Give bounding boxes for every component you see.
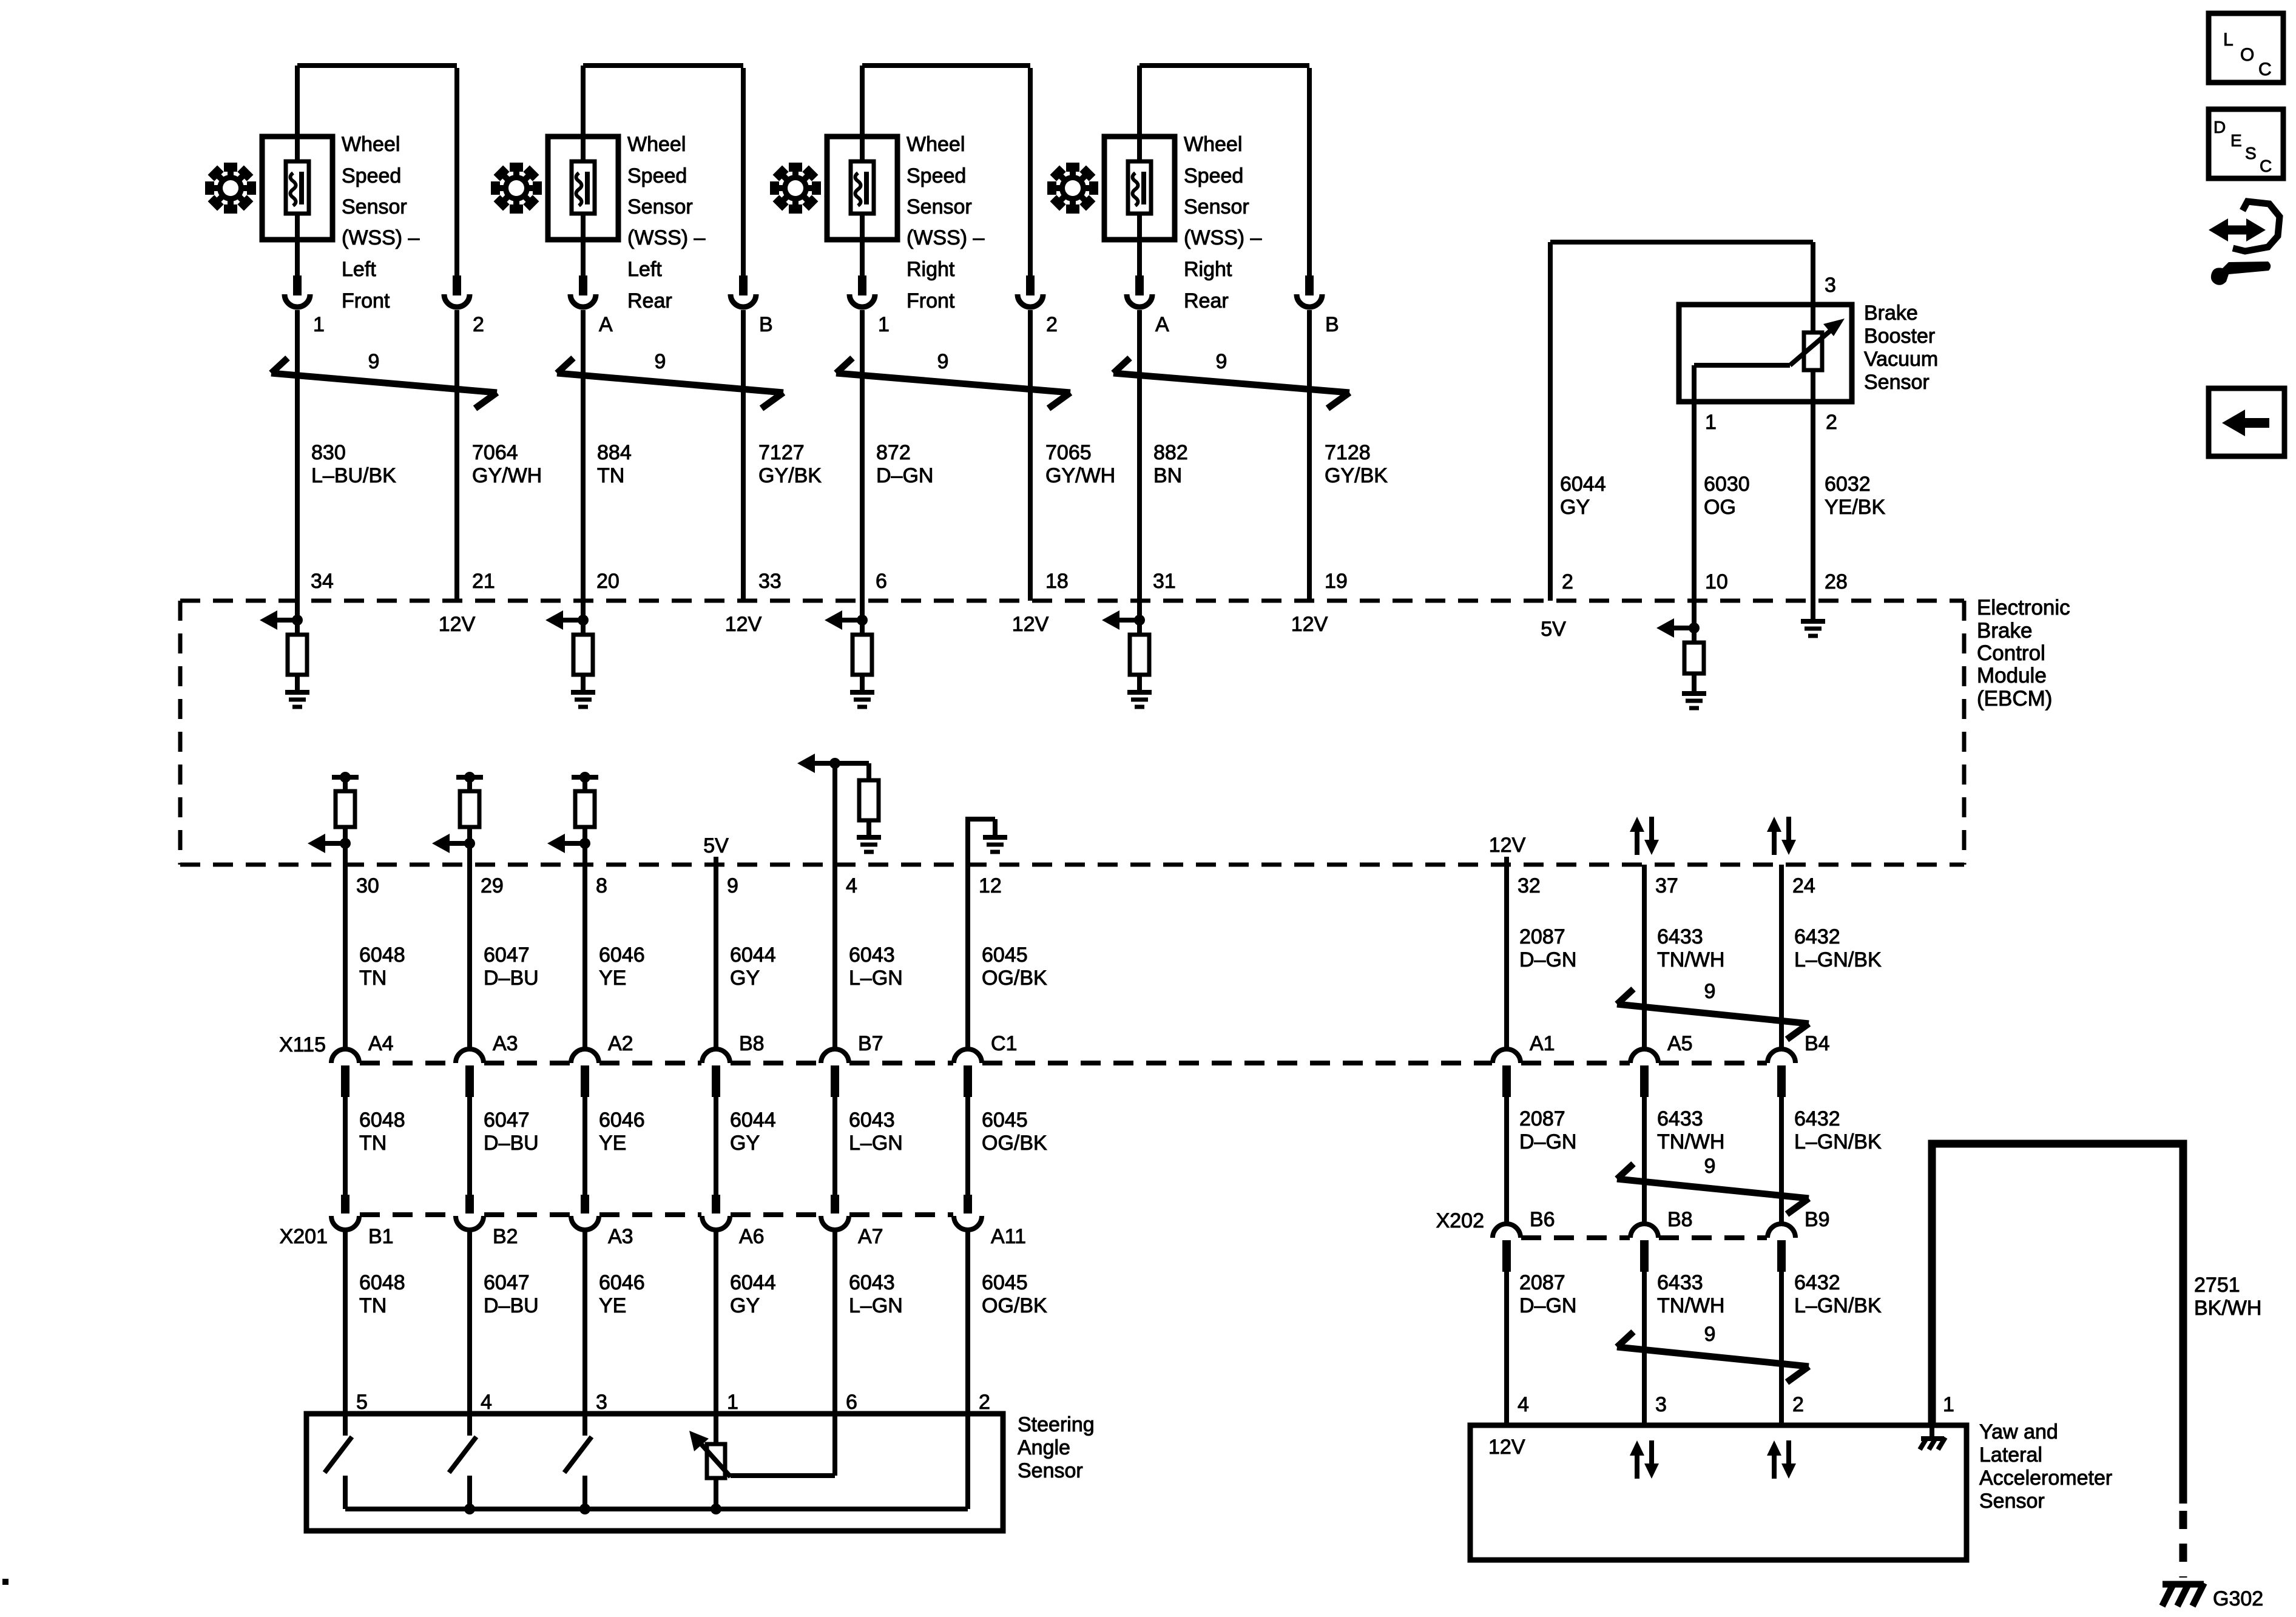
wire 830 L–BU/BK (297, 310, 396, 620)
shield 9 over wires 6433 and 6432 (upper) (1617, 980, 1809, 1039)
svg-text:12V: 12V (1291, 613, 1328, 636)
svg-text:6432: 6432 (1794, 1107, 1840, 1130)
svg-text:9: 9 (368, 350, 380, 373)
svg-text:GY/WH: GY/WH (472, 464, 542, 487)
svg-text:Booster: Booster (1864, 325, 1935, 348)
svg-text:X202: X202 (1436, 1209, 1484, 1232)
connector X202 terminal B8 (1630, 1208, 1693, 1272)
svg-text:D–BU: D–BU (484, 1294, 539, 1317)
EBCM internal arrow node at pin 29 (432, 834, 475, 853)
connector X201 terminal B1 (331, 1195, 394, 1248)
svg-text:6046: 6046 (599, 1109, 645, 1132)
svg-text:37: 37 (1655, 874, 1678, 897)
svg-text:A1: A1 (1530, 1032, 1555, 1055)
svg-text:YE: YE (599, 1294, 626, 1317)
wire 7127 GY/BK (743, 310, 822, 601)
svg-text:7065: 7065 (1045, 441, 1092, 464)
label Wheel Speed Sensor (WSS) - Right Front (907, 133, 985, 312)
svg-text:Electronic: Electronic (1977, 596, 2070, 619)
wire 6045 OG/BK segment 2 (968, 1097, 1047, 1195)
svg-text:B: B (1325, 313, 1339, 336)
svg-text:Wheel: Wheel (342, 133, 400, 156)
EBCM pin 19 (1325, 570, 1348, 593)
wire 872 D–GN (862, 310, 933, 620)
svg-text:D–GN: D–GN (876, 464, 933, 487)
svg-text:Left: Left (342, 258, 376, 281)
svg-text:O: O (2240, 45, 2254, 65)
svg-text:L–GN/BK: L–GN/BK (1794, 1130, 1882, 1153)
back arrow box (2209, 388, 2284, 456)
svg-text:9: 9 (1704, 1155, 1716, 1178)
svg-text:Sensor: Sensor (627, 195, 693, 218)
svg-text:3: 3 (596, 1391, 607, 1414)
svg-text:6046: 6046 (599, 1271, 645, 1294)
connector X115 terminal A2 (571, 1032, 633, 1097)
wire 6433 TN/WH segment 3 (1644, 1271, 1724, 1425)
svg-text:(WSS) –: (WSS) – (342, 226, 420, 249)
svg-text:C: C (2258, 59, 2272, 79)
svg-text:7064: 7064 (472, 441, 518, 464)
wire 6045 OG/BK segment 3 (968, 1227, 1047, 1414)
wire 6046 YE segment 2 (585, 1097, 645, 1195)
EBCM internal pull-up resistor at pin 29 (456, 772, 483, 865)
connector X202 terminal B6 (1493, 1208, 1555, 1272)
svg-text:TN/WH: TN/WH (1657, 948, 1724, 971)
svg-text:G302: G302 (2213, 1587, 2263, 1610)
svg-text:Speed: Speed (907, 164, 966, 187)
EBCM internal arrow node at pin 4 (797, 754, 840, 865)
wire 6045 OG/BK segment 1 (968, 865, 1047, 1048)
EBCM internal arrow node at pin 20 (545, 610, 589, 630)
svg-text:6032: 6032 (1825, 473, 1871, 496)
svg-text:12V: 12V (1012, 613, 1049, 636)
svg-text:TN: TN (359, 1132, 387, 1155)
terminal B of WSS 4 (1297, 275, 1339, 336)
switch inside steering angle sensor at pin 3 (564, 1414, 592, 1509)
svg-text:B: B (759, 313, 773, 336)
svg-text:GY: GY (730, 1132, 760, 1155)
hand/wrench tool icon (2209, 201, 2280, 285)
svg-text:4: 4 (846, 874, 857, 897)
wire 6043 L–GN segment 3 (835, 1227, 903, 1414)
EBCM internal bidirectional arrows at pin 37 (1630, 817, 1659, 855)
EBCM internal ground at pin 20 (571, 692, 595, 707)
svg-text:L: L (2223, 30, 2234, 50)
svg-text:D–GN: D–GN (1519, 1294, 1576, 1317)
svg-text:TN/WH: TN/WH (1657, 1294, 1724, 1317)
svg-text:10: 10 (1705, 570, 1728, 593)
svg-text:A7: A7 (858, 1225, 883, 1248)
svg-text:Sensor: Sensor (1018, 1459, 1083, 1482)
EBCM pin 6 (876, 570, 887, 593)
label Electronic Brake Control Module (EBCM) (1977, 596, 2070, 711)
svg-text:2751: 2751 (2194, 1274, 2240, 1297)
EBCM internal resistor at pin 34 (288, 620, 307, 690)
svg-text:7127: 7127 (758, 441, 805, 464)
svg-text:1: 1 (313, 313, 325, 336)
svg-text:YE: YE (599, 1132, 626, 1155)
12V label at EBCM pin 32 (1489, 834, 1526, 865)
svg-text:6433: 6433 (1657, 1107, 1703, 1130)
svg-text:B9: B9 (1805, 1208, 1830, 1231)
gear icon for WSS Right Rear (1047, 163, 1098, 214)
svg-text:B4: B4 (1805, 1032, 1830, 1055)
wire 6048 TN segment 1 (345, 865, 405, 1048)
EBCM internal resistor at pin 10 (1684, 628, 1704, 692)
svg-text:B6: B6 (1530, 1208, 1555, 1231)
svg-text:YE/BK: YE/BK (1825, 496, 1885, 519)
EBCM pin 31 (1153, 570, 1176, 593)
connector X201 dashed line (360, 1212, 953, 1217)
svg-text:Module: Module (1977, 664, 2047, 687)
wheel speed sensor (WSS) Right Front box (827, 137, 897, 240)
svg-text:GY: GY (730, 1294, 760, 1317)
svg-text:31: 31 (1153, 570, 1176, 593)
terminal 2 of WSS 3 (1018, 275, 1058, 336)
svg-text:OG/BK: OG/BK (982, 967, 1047, 990)
svg-text:5V: 5V (703, 834, 729, 857)
svg-text:Angle: Angle (1018, 1436, 1070, 1459)
svg-text:6044: 6044 (730, 944, 776, 967)
connector X115 terminal A4 (331, 1032, 394, 1097)
svg-text:L–GN: L–GN (849, 967, 903, 990)
svg-text:6432: 6432 (1794, 925, 1840, 948)
EBCM pin 29 (481, 874, 504, 897)
svg-text:TN: TN (359, 967, 387, 990)
connector X201 label (280, 1225, 328, 1248)
svg-text:Wheel: Wheel (1184, 133, 1242, 156)
terminal 1 of WSS 1 (285, 275, 325, 336)
svg-text:1: 1 (1943, 1393, 1954, 1416)
label Wheel Speed Sensor (WSS) - Right Rear (1184, 133, 1262, 312)
svg-text:12V: 12V (1488, 1436, 1525, 1459)
connector X115 label (279, 1033, 326, 1056)
steering angle sensor pin 6 (846, 1391, 857, 1414)
svg-text:GY/BK: GY/BK (758, 464, 822, 487)
wire 7064 GY/WH (457, 310, 542, 601)
svg-text:32: 32 (1518, 874, 1541, 897)
svg-text:TN: TN (597, 464, 624, 487)
EBCM pin 12 (979, 874, 1002, 897)
svg-text:Brake: Brake (1977, 619, 2032, 643)
svg-text:6047: 6047 (484, 944, 530, 967)
EBCM internal resistor to ground at pin 4 (835, 763, 881, 852)
svg-text:BK/WH: BK/WH (2194, 1297, 2261, 1320)
svg-text:6: 6 (876, 570, 887, 593)
EBCM internal ground at pin 34 (285, 692, 309, 707)
EBCM internal pull-up resistor at pin 8 (572, 772, 598, 865)
connector X115 terminal C1 (954, 1032, 1017, 1097)
svg-text:Sensor: Sensor (342, 195, 407, 218)
switch inside steering angle sensor at pin 4 (449, 1414, 476, 1509)
wire 2087 D–GN segment 3 (1507, 1271, 1576, 1425)
EBCM pin 4 (846, 874, 857, 897)
svg-text:L–BU/BK: L–BU/BK (311, 464, 396, 487)
connector X115 terminal B4 (1768, 1032, 1830, 1097)
svg-text:9: 9 (655, 350, 666, 373)
gear icon for WSS Right Front (770, 163, 821, 214)
connector X115 terminal B7 (821, 1032, 883, 1097)
12V label at pin 18 (1012, 613, 1049, 636)
svg-text:6044: 6044 (730, 1271, 776, 1294)
svg-text:TN: TN (359, 1294, 387, 1317)
wire 6044 GY upper run (1550, 242, 1813, 601)
connector X201 terminal A3 (571, 1195, 633, 1248)
terminal A of WSS 2 (570, 275, 613, 336)
yaw and lateral accelerometer sensor box (1470, 1425, 1967, 1560)
svg-text:882: 882 (1153, 441, 1188, 464)
svg-text:Sensor: Sensor (1864, 371, 1930, 394)
svg-text:2: 2 (1792, 1393, 1804, 1416)
EBCM pin 21 (472, 570, 495, 593)
svg-text:9: 9 (1704, 1323, 1716, 1346)
label Wheel Speed Sensor (WSS) - Left Front (342, 133, 420, 312)
svg-text:Sensor: Sensor (1184, 195, 1249, 218)
svg-text:5V: 5V (1541, 618, 1566, 641)
wire 6433 TN/WH segment 1 (1644, 865, 1724, 1048)
svg-text:6045: 6045 (982, 1271, 1028, 1294)
Electronic Brake Control Module (EBCM) dashed outline (180, 601, 1964, 865)
svg-text:6045: 6045 (982, 1109, 1028, 1132)
connector X201 terminal B2 (456, 1195, 518, 1248)
wire 2087 D–GN segment 2 (1507, 1097, 1576, 1223)
svg-text:OG/BK: OG/BK (982, 1132, 1047, 1155)
wire 6433 TN/WH segment 2 (1644, 1097, 1724, 1223)
connector X115 terminal B8 (702, 1032, 765, 1097)
EBCM internal ground at pin 6 (850, 692, 874, 707)
svg-text:18: 18 (1045, 570, 1069, 593)
wire 6048 TN segment 2 (345, 1097, 405, 1195)
svg-text:Speed: Speed (627, 164, 687, 187)
svg-text:2087: 2087 (1519, 1107, 1565, 1130)
svg-text:X115: X115 (279, 1033, 326, 1056)
svg-text:Brake: Brake (1864, 302, 1918, 325)
svg-text:6030: 6030 (1704, 473, 1750, 496)
svg-text:9: 9 (727, 874, 738, 897)
LOC reference box (2209, 13, 2283, 83)
EBCM pin 2 (1562, 570, 1573, 593)
svg-text:5: 5 (356, 1391, 368, 1414)
EBCM pin 28 (1825, 570, 1848, 593)
gear icon for WSS Left Front (205, 163, 256, 214)
EBCM internal ground at pin 31 (1127, 692, 1152, 707)
svg-text:Wheel: Wheel (907, 133, 965, 156)
connector X115 terminal A3 (456, 1032, 518, 1097)
svg-text:E: E (2230, 131, 2242, 150)
wire 6432 L–GN/BK segment 2 (1781, 1097, 1882, 1223)
steering angle sensor pin 3 (596, 1391, 607, 1414)
wire 2087 D–GN segment 1 (1507, 865, 1576, 1048)
label Brake Booster Vacuum Sensor (1864, 302, 1938, 394)
svg-text:2: 2 (979, 1391, 990, 1414)
wire 2751 BK/WH (1932, 1144, 2261, 1578)
EBCM pin 33 (758, 570, 782, 593)
brake booster sensor pin 3 (1813, 242, 1836, 333)
svg-text:1: 1 (727, 1391, 738, 1414)
svg-text:OG/BK: OG/BK (982, 1294, 1047, 1317)
svg-text:A6: A6 (739, 1225, 765, 1248)
wire 6044 GY segment 1 (716, 865, 776, 1048)
svg-text:2: 2 (473, 313, 484, 336)
svg-text:A: A (599, 313, 613, 336)
svg-text:A3: A3 (493, 1032, 518, 1055)
EBCM pin 32 (1518, 874, 1541, 897)
yaw sensor pin 1 (1943, 1393, 1954, 1416)
EBCM pin 20 (596, 570, 620, 593)
svg-text:(WSS) –: (WSS) – (627, 226, 706, 249)
svg-text:C: C (2260, 157, 2272, 175)
svg-text:Sensor: Sensor (907, 195, 972, 218)
wire 6044 GY segment 2 (716, 1097, 776, 1195)
svg-text:Lateral: Lateral (1979, 1443, 2042, 1467)
svg-text:1: 1 (1705, 411, 1717, 434)
svg-text:2: 2 (1826, 411, 1837, 434)
label Steering Angle Sensor (1018, 1413, 1095, 1482)
5V label at EBCM pin 9 (703, 834, 729, 865)
EBCM pin 37 (1655, 874, 1678, 897)
svg-text:6044: 6044 (730, 1109, 776, 1132)
svg-text:S: S (2245, 144, 2257, 163)
svg-text:Rear: Rear (627, 289, 672, 312)
wire loop WSS 3 top (862, 66, 1030, 275)
svg-text:30: 30 (356, 874, 379, 897)
potentiometer inside steering angle sensor (689, 1414, 731, 1509)
connector X115 terminal A5 (1630, 1032, 1693, 1097)
wire 6048 TN segment 3 (345, 1227, 405, 1414)
steering angle sensor pin 2 (979, 1391, 990, 1414)
svg-text:6047: 6047 (484, 1109, 530, 1132)
wire loop WSS 4 top (1140, 66, 1309, 275)
svg-text:Right: Right (1184, 258, 1232, 281)
EBCM pin 10 (1705, 570, 1728, 593)
EBCM pin 9 (727, 874, 738, 897)
shield 9 over wires 6433 and 6432 (lower) (1617, 1323, 1809, 1382)
svg-text:B8: B8 (739, 1032, 765, 1055)
steering angle sensor pin 1 (727, 1391, 738, 1414)
wire 6432 L–GN/BK segment 1 (1781, 865, 1882, 1048)
wire 6432 L–GN/BK segment 3 (1781, 1271, 1882, 1425)
svg-text:Right: Right (907, 258, 955, 281)
svg-text:7128: 7128 (1325, 441, 1371, 464)
svg-text:Left: Left (627, 258, 662, 281)
svg-text:6045: 6045 (982, 944, 1028, 967)
svg-text:L–GN/BK: L–GN/BK (1794, 948, 1882, 971)
svg-text:BN: BN (1153, 464, 1182, 487)
svg-text:A2: A2 (608, 1032, 633, 1055)
EBCM internal arrow node at pin 34 (260, 610, 303, 630)
svg-text:GY: GY (1560, 496, 1590, 519)
shield 9 over WSS 2 wires (557, 350, 783, 408)
wire 6044 GY segment 3 (716, 1227, 776, 1414)
wire 6047 D–BU segment 2 (470, 1097, 539, 1195)
svg-text:YE: YE (599, 967, 626, 990)
connector X202 label (1436, 1209, 1484, 1232)
EBCM internal arrow node at pin 31 (1102, 610, 1145, 630)
wire loop WSS 1 top (297, 66, 457, 275)
EBCM internal resistor at pin 6 (853, 620, 872, 690)
svg-text:D: D (2213, 118, 2226, 137)
svg-text:9: 9 (1704, 980, 1716, 1003)
svg-text:Rear: Rear (1184, 289, 1229, 312)
terminal 2 of WSS 1 (444, 275, 484, 336)
svg-text:6046: 6046 (599, 944, 645, 967)
page mark dot (2, 1579, 8, 1585)
wire 6046 YE segment 3 (585, 1227, 645, 1414)
svg-text:L–GN: L–GN (849, 1294, 903, 1317)
yaw sensor pin 3 (1655, 1393, 1667, 1416)
wire 884 TN (583, 310, 632, 620)
svg-text:2: 2 (1046, 313, 1058, 336)
EBCM internal ground at pin 10 (1682, 694, 1706, 708)
svg-text:4: 4 (1518, 1393, 1529, 1416)
svg-text:29: 29 (481, 874, 504, 897)
svg-text:Vacuum: Vacuum (1864, 348, 1938, 371)
EBCM pin 34 (311, 570, 334, 593)
svg-text:33: 33 (758, 570, 782, 593)
connector X202 dashed line (1521, 1235, 1767, 1240)
svg-text:C1: C1 (991, 1032, 1017, 1055)
svg-text:8: 8 (596, 874, 607, 897)
svg-text:34: 34 (311, 570, 334, 593)
terminal 1 of WSS 3 (849, 275, 890, 336)
svg-text:Wheel: Wheel (627, 133, 686, 156)
svg-text:D–BU: D–BU (484, 967, 539, 990)
ground G302 (2163, 1583, 2264, 1610)
wheel speed sensor (WSS) Left Rear box (548, 137, 618, 240)
switch inside steering angle sensor at pin 5 (325, 1414, 352, 1509)
wire loop WSS 2 top (583, 66, 743, 275)
svg-text:19: 19 (1325, 570, 1348, 593)
internal ground inside yaw sensor (pin 1) (1920, 1425, 1945, 1450)
connector X201 terminal A7 (821, 1195, 883, 1248)
svg-text:GY: GY (730, 967, 760, 990)
svg-text:884: 884 (597, 441, 632, 464)
svg-text:D–GN: D–GN (1519, 1130, 1576, 1153)
wire 6047 D–BU segment 1 (470, 865, 539, 1048)
EBCM internal ground at pin 12 (968, 817, 1007, 865)
12V label at pin 33 (725, 613, 762, 636)
EBCM internal arrow node at pin 8 (547, 834, 590, 853)
steering angle sensor box (306, 1414, 1003, 1531)
wire 7065 GY/WH (1030, 310, 1115, 601)
svg-text:(WSS) –: (WSS) – (1184, 226, 1262, 249)
terminal B of WSS 2 (731, 275, 773, 336)
internal bus of steering angle sensor (345, 1414, 968, 1514)
5V label at pin 2 (1541, 618, 1566, 641)
svg-text:12: 12 (979, 874, 1002, 897)
connector X115 terminal A1 (1493, 1032, 1555, 1097)
svg-text:3: 3 (1825, 274, 1836, 297)
wire 6046 YE segment 1 (585, 865, 645, 1048)
svg-text:(WSS) –: (WSS) – (907, 226, 985, 249)
svg-text:2087: 2087 (1519, 925, 1565, 948)
EBCM internal resistor at pin 20 (573, 620, 593, 690)
wire 6043 L–GN segment 1 (835, 865, 903, 1048)
wire 6043 L–GN segment 2 (835, 1097, 903, 1195)
steering angle sensor pin 4 (481, 1391, 492, 1414)
connector X201 terminal A11 (954, 1195, 1026, 1248)
svg-text:4: 4 (481, 1391, 492, 1414)
svg-text:A3: A3 (608, 1225, 633, 1248)
12V label at pin 21 (439, 613, 476, 636)
wire 6047 D–BU segment 3 (470, 1227, 539, 1414)
svg-text:Speed: Speed (342, 164, 401, 187)
connector X115 dashed line (360, 1061, 1767, 1065)
EBCM internal bidirectional arrows at pin 24 (1767, 817, 1796, 855)
svg-text:2: 2 (1562, 570, 1573, 593)
shield 9 over WSS 3 wires (836, 350, 1070, 408)
svg-text:28: 28 (1825, 570, 1848, 593)
